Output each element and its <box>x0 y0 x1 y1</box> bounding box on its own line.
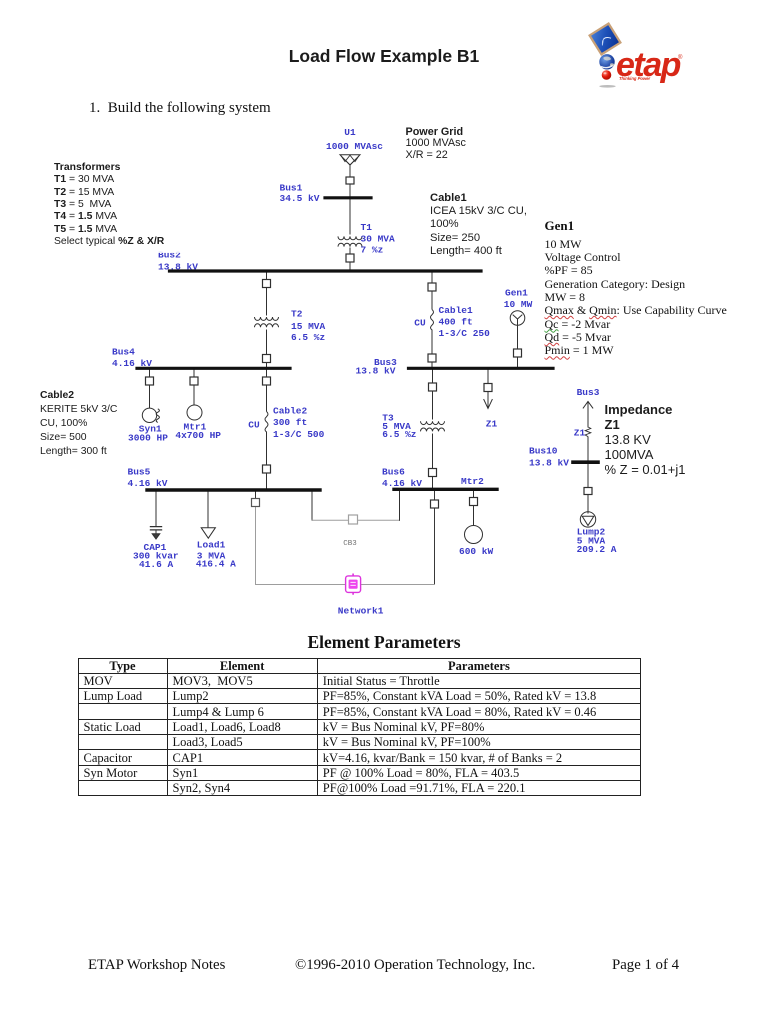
svg-text:CU: CU <box>414 318 426 329</box>
wire Bus3 to T3 <box>432 370 434 419</box>
capacitor CAP1 symbol <box>150 527 162 539</box>
element parameters table title <box>0 632 768 653</box>
svg-text:T2: T2 <box>291 309 303 320</box>
power grid note block <box>406 127 466 163</box>
wire to CB3 left horizontal <box>312 519 348 521</box>
breaker square T2 to Bus4 <box>263 355 271 363</box>
logo shadow <box>599 85 615 88</box>
syn motor Syn1 symbol <box>142 408 159 422</box>
wire U1 to Bus1 <box>349 165 351 198</box>
transformer T1 <box>338 236 362 246</box>
induction motor Mtr2 symbol <box>465 526 483 544</box>
svg-text:1000 MVAsc: 1000 MVAsc <box>326 141 383 152</box>
breaker square Bus5 to Network1 <box>252 499 260 507</box>
svg-text:4.16 kV: 4.16 kV <box>382 478 422 489</box>
wire Bus5 to Load1 <box>207 492 209 528</box>
svg-text:U1: U1 <box>344 127 356 138</box>
item 1 heading <box>89 100 271 117</box>
svg-text:Bus6: Bus6 <box>382 466 405 477</box>
wire Bus1 to T1 <box>349 199 351 234</box>
breaker square CB3 open <box>349 515 358 524</box>
bus Bus5 4.16kV <box>147 488 320 491</box>
svg-text:Network1: Network1 <box>338 605 384 616</box>
wire Network1 right horizontal <box>361 584 435 586</box>
wire Z1 impedance to Bus10 <box>587 437 589 460</box>
wire Bus6 to Network1 vertical <box>434 492 436 585</box>
svg-text:15 MVA: 15 MVA <box>291 321 326 332</box>
logo red ball <box>602 70 612 80</box>
breaker square Bus3 to T3 <box>429 383 437 391</box>
svg-text:®: ® <box>678 54 683 61</box>
network Network1 symbol <box>346 574 361 595</box>
svg-text:Z1: Z1 <box>486 418 498 429</box>
svg-text:400 ft: 400 ft <box>439 316 473 327</box>
breaker square Bus4 to Syn1 <box>146 377 154 385</box>
wire breaker to Lump2 <box>587 495 589 513</box>
breaker square T1 to Bus2 <box>346 254 354 262</box>
bus Bus4 4.16kV <box>137 367 290 370</box>
bus Bus3 13.8kV <box>409 367 554 370</box>
svg-text:Bus4: Bus4 <box>112 346 135 357</box>
svg-text:Bus3: Bus3 <box>577 387 600 398</box>
svg-text:34.5 kV: 34.5 kV <box>280 193 320 204</box>
induction motor Mtr1 symbol <box>187 405 202 420</box>
svg-text:13.8 kV: 13.8 kV <box>158 261 198 272</box>
wire Bus4 to Mtr1 <box>193 370 195 405</box>
svg-text:13.8 kV: 13.8 kV <box>356 366 396 377</box>
wire Cable1 to Bus3 <box>431 330 433 367</box>
svg-text:30 MVA: 30 MVA <box>361 233 396 244</box>
bus Bus10 13.8kV <box>573 460 598 464</box>
svg-text:CB3: CB3 <box>343 540 357 548</box>
breaker square Gen1 to Bus3 <box>514 349 522 357</box>
wire Bus5 breaker to Network1 vertical <box>255 507 257 585</box>
bus Bus1 34.5kV <box>325 196 371 199</box>
wire Bus3 to Z1 arrow <box>487 370 489 407</box>
footer <box>88 957 225 974</box>
svg-text:209.2 A: 209.2 A <box>577 544 617 555</box>
cable1 note block <box>430 192 527 259</box>
page title <box>0 46 768 67</box>
power grid U1 symbol <box>340 155 360 165</box>
impedance Z1 symbol squiggle <box>585 427 591 437</box>
transformers note block <box>54 162 164 248</box>
element parameters table <box>78 658 642 797</box>
cable Cable2 symbol <box>265 412 268 433</box>
transformer T2 <box>255 317 279 327</box>
wire Bus10 to breaker <box>587 464 589 487</box>
wire Bus6 to Mtr2 <box>473 492 475 526</box>
wire T2 to Bus4 <box>266 330 268 367</box>
svg-text:41.6 A: 41.6 A <box>139 559 174 570</box>
svg-text:Cable2: Cable2 <box>273 405 308 416</box>
logo globe <box>599 54 614 69</box>
wire CB3 right horizontal <box>358 519 400 521</box>
wire Network1 left horizontal <box>256 584 346 586</box>
svg-text:Bus10: Bus10 <box>529 446 558 457</box>
bus Bus2 13.8kV <box>170 269 482 272</box>
svg-text:CU: CU <box>248 419 260 430</box>
wire remote Bus3 to Z1 impedance <box>587 402 589 428</box>
gen1 note block <box>545 218 575 234</box>
svg-text:Bus5: Bus5 <box>128 466 151 477</box>
wire Bus5 to CB3 vertical <box>311 492 313 521</box>
arrowhead up remote Bus3 <box>583 402 593 409</box>
logo diamond <box>590 24 621 55</box>
svg-text:300 ft: 300 ft <box>273 417 307 428</box>
wire Bus2 to Cable1 <box>431 272 433 309</box>
wire Bus5 to CAP1 <box>155 492 157 527</box>
svg-text:1-3/C 250: 1-3/C 250 <box>439 328 491 339</box>
breaker square Bus6 to Network1 <box>431 500 439 508</box>
svg-text:10 MW: 10 MW <box>504 299 533 310</box>
svg-text:7 %z: 7 %z <box>361 244 384 255</box>
static load Load1 symbol <box>201 528 215 539</box>
wire Bus2 to T2 <box>266 272 268 315</box>
breaker square Bus2 to Cable1 <box>428 283 436 291</box>
svg-text:Thinking Power: Thinking Power <box>619 76 651 81</box>
svg-text:4.16 kV: 4.16 kV <box>128 478 168 489</box>
generator Gen1 symbol <box>510 311 525 326</box>
svg-text:Load1: Load1 <box>197 539 226 550</box>
wire T3 to Bus6 <box>432 434 434 488</box>
svg-text:4.16 kV: 4.16 kV <box>112 358 152 369</box>
breaker square Bus4 to Mtr1 <box>190 377 198 385</box>
svg-text:Z1: Z1 <box>574 428 586 439</box>
breaker square Cable1 to Bus3 <box>428 354 436 362</box>
transformer T3 <box>421 421 445 431</box>
wire Cable2 to Bus5 <box>266 432 268 488</box>
impedance note block <box>605 403 686 478</box>
breaker square below U1 <box>346 177 354 184</box>
breaker square Cable2 to Bus5 <box>263 465 271 473</box>
breaker square Bus10 to Lump2 <box>584 488 592 495</box>
svg-text:Mtr2: Mtr2 <box>461 476 484 487</box>
svg-text:6.5 %z: 6.5 %z <box>382 429 416 440</box>
lump load Lump2 symbol <box>580 512 595 527</box>
svg-text:6.5 %z: 6.5 %z <box>291 332 325 343</box>
breaker square Bus4 to Cable2 <box>263 377 271 385</box>
svg-text:Gen1: Gen1 <box>505 287 528 298</box>
wire Bus5 to its breaker <box>255 492 257 500</box>
svg-text:416.4 A: 416.4 A <box>196 558 236 569</box>
breaker square T3 to Bus6 <box>429 469 437 477</box>
breaker square Bus2 to T2 <box>263 280 271 288</box>
bus Bus6 4.16kV <box>394 488 497 491</box>
wire Bus4 to Cable2 <box>266 370 268 411</box>
breaker square Bus6 to Mtr2 <box>470 498 478 506</box>
svg-text:4x700 HP: 4x700 HP <box>175 430 221 441</box>
svg-text:600 kW: 600 kW <box>459 546 494 557</box>
wire Bus4 to Syn1 <box>149 370 151 408</box>
svg-text:Cable1: Cable1 <box>439 305 474 316</box>
wire CB3 to Bus6 vertical <box>399 492 401 521</box>
wire T1 to Bus2 <box>349 248 351 270</box>
breaker square Bus3 to Z1 <box>484 384 492 392</box>
svg-text:1-3/C 500: 1-3/C 500 <box>273 429 325 440</box>
svg-text:13.8 kV: 13.8 kV <box>529 458 569 469</box>
cable2 note block <box>40 389 117 459</box>
svg-text:3000 HP: 3000 HP <box>128 432 168 443</box>
svg-text:T1: T1 <box>361 222 373 233</box>
cable Cable1 symbol <box>431 310 434 331</box>
wire Gen1 to Bus3 <box>517 325 519 367</box>
arrowhead Z1 down <box>484 400 492 409</box>
